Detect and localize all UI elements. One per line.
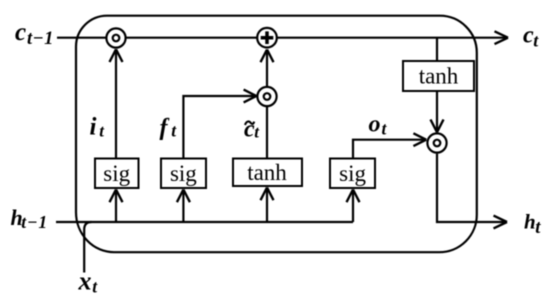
svg-text:i: i [90,114,97,141]
add node (on c line) [257,28,277,48]
wire: tanh box down to M3 [436,91,438,131]
arrowhead: into M1 from below [110,49,123,62]
multiply node M2 (candidate x input gate) [257,87,276,106]
LSTM cell body rounded rectangle [76,16,477,253]
svg-text:t: t [99,122,105,141]
svg-text:t−1: t−1 [27,29,54,49]
svg-text:x: x [78,267,92,296]
gate box sig2 (forget gate) [161,159,206,189]
svg-text:t: t [533,31,539,51]
label i_t [90,114,106,141]
label f_t [160,115,178,141]
wire: sig4 (o gate) output up and right to M3 [353,140,424,159]
arrowhead: c_t output arrow [495,31,509,44]
label h_t [524,209,541,238]
arrowhead: into M3 from left [413,133,426,146]
gate box tanh3 (candidate) [233,159,302,187]
wire: sig1 output up to M1 [115,50,117,159]
wire: cell-state line c [57,37,506,39]
svg-text:t−1: t−1 [21,212,48,232]
wire: sig2 (f gate) output up and right to M2 [183,96,254,159]
label c_{t-1} [15,19,54,49]
svg-text:tanh: tanh [419,64,459,89]
svg-text:f: f [160,115,170,141]
multiply node M3 (output gate) [427,133,446,152]
wire: M3 down and right to h_t output [437,154,505,222]
svg-text:sig: sig [170,161,197,186]
multiply node M1 (on c line) [106,28,125,47]
wire+arrowhead: up arrow into sig2 [182,192,184,223]
svg-text:h: h [524,209,536,233]
wire+arrowhead: up arrow into tanh3 [266,190,268,223]
svg-text:sig: sig [339,161,366,186]
gate box sig4 (output gate) [330,159,375,189]
tanh box on output branch [403,61,474,91]
svg-text:c: c [15,19,26,46]
gate box sig1 (input gate) [95,159,139,189]
wire: tanh3 output up to M2 [266,107,268,159]
wire: c line branch down to tanh box [436,38,438,61]
label o_t [369,112,388,139]
label c_t [523,22,539,50]
svg-text:t: t [382,118,388,138]
arrowhead: into M3 from above [431,120,444,133]
label c~_t (candidate) [244,116,260,142]
label h_{t-1} [11,205,48,232]
svg-text:t: t [535,218,541,238]
label x_t [78,267,99,297]
wire: x_t input merging into h line [84,222,91,273]
svg-text:o: o [369,112,381,138]
arrowhead: into add node from below [261,50,274,63]
arrowhead: h_t output arrow [494,216,508,229]
wire: h_{t-1} input line [56,221,353,223]
svg-text:t: t [171,120,177,140]
arrowhead: into M2 from left [244,90,257,103]
svg-text:t: t [92,276,98,296]
svg-text:t: t [254,122,260,141]
wire+arrowhead: up arrow into sig4 [352,192,354,223]
wire: M2 up to add node [266,51,268,86]
svg-text:tanh: tanh [247,160,287,185]
wire+arrowhead: up arrow into sig1 [115,192,117,223]
svg-text:sig: sig [103,161,130,186]
